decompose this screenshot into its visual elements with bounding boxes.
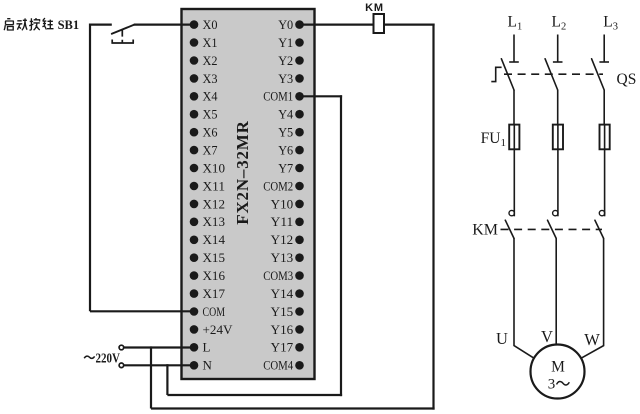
svg-text:Y0: Y0	[278, 17, 293, 32]
terminal Y13 (PLC right pin)	[271, 250, 304, 265]
svg-text:Y3: Y3	[278, 71, 293, 86]
wire: COM1 lead	[300, 95, 343, 97]
wire: KM contact to motor U	[514, 238, 534, 358]
svg-text:L: L	[203, 340, 211, 355]
terminal bar L1	[509, 61, 519, 63]
svg-text:X17: X17	[203, 286, 226, 301]
svg-text:X3: X3	[203, 71, 218, 86]
wire: Y0 to KM coil	[300, 24, 435, 26]
terminal Y17 (PLC right pin)	[271, 340, 304, 355]
svg-text:X15: X15	[203, 250, 226, 265]
svg-text:Y13: Y13	[271, 250, 294, 265]
disconnect switch QS blade pole 3	[592, 59, 605, 90]
wire: inner bottom return to COM1	[167, 394, 342, 396]
svg-text:3: 3	[548, 377, 556, 393]
terminal Y5 (PLC right pin)	[278, 125, 304, 140]
svg-text:X10: X10	[203, 160, 226, 175]
svg-text:M: M	[551, 358, 565, 375]
svg-text:X12: X12	[203, 196, 226, 211]
terminal +24V (PLC left pin)	[190, 322, 233, 337]
svg-text:X6: X6	[203, 125, 218, 140]
svg-text:U: U	[496, 329, 508, 348]
terminal Y6 (PLC right pin)	[278, 143, 304, 158]
wire: L3 supply stub	[603, 35, 605, 63]
QS linkage (dashed)	[504, 73, 603, 75]
supply terminal (circle) to L	[119, 345, 124, 350]
terminal X11 (PLC left pin)	[190, 178, 225, 193]
contactor coil KM	[365, 2, 384, 33]
terminal X17 (PLC left pin)	[190, 286, 226, 301]
svg-text:Y1: Y1	[278, 35, 293, 50]
svg-text:Y7: Y7	[278, 160, 293, 175]
svg-text:COM4: COM4	[263, 358, 293, 373]
svg-text:Y4: Y4	[278, 107, 293, 122]
contactor KM main contact blade pole 1	[505, 220, 514, 238]
terminal X3 (PLC left pin)	[190, 71, 218, 86]
terminal Y7 (PLC right pin)	[278, 160, 304, 175]
terminal X4 (PLC left pin)	[190, 89, 218, 104]
svg-text:Y16: Y16	[271, 322, 294, 337]
wire: KM contact to motor V	[555, 238, 557, 345]
terminal Y11 (PLC right pin)	[271, 214, 304, 229]
svg-text:Y2: Y2	[278, 53, 293, 68]
terminal X16 (PLC left pin)	[190, 268, 226, 283]
terminal COM (PLC left pin)	[190, 304, 226, 319]
terminal X5 (PLC left pin)	[190, 107, 218, 122]
svg-text:X11: X11	[203, 178, 226, 193]
disconnect switch QS blade pole 1	[501, 59, 514, 90]
svg-text:L2: L2	[552, 13, 567, 32]
terminal X10 (PLC left pin)	[190, 160, 225, 175]
fuse FU1 pole 1	[509, 125, 519, 150]
wire: fuse element pole 2	[557, 125, 559, 150]
svg-text:COM1: COM1	[263, 89, 293, 104]
svg-text:COM3: COM3	[263, 268, 293, 283]
label: ~220V supply	[84, 356, 94, 358]
wire: fuse to KM contact pole 1	[513, 149, 515, 216]
svg-text:KM: KM	[365, 2, 384, 14]
svg-text:220V: 220V	[96, 350, 121, 365]
svg-text:QS: QS	[617, 71, 637, 88]
terminal Y3 (PLC right pin)	[278, 71, 304, 86]
terminal Y16 (PLC right pin)	[271, 322, 304, 337]
svg-text:FX2N–32MR: FX2N–32MR	[233, 120, 252, 224]
svg-text:+24V: +24V	[203, 322, 234, 337]
svg-text:Y5: Y5	[278, 125, 293, 140]
terminal X6 (PLC left pin)	[190, 125, 218, 140]
wire: fuse element pole 3	[604, 125, 606, 150]
svg-text:X7: X7	[203, 143, 218, 158]
svg-text:L3: L3	[603, 13, 618, 32]
wire: L1 supply stub	[513, 35, 515, 63]
terminal X0 (PLC left pin)	[190, 17, 218, 32]
wire: QS to fuse pole 3	[603, 90, 605, 125]
wire: X0 lead, left segment	[89, 24, 112, 26]
terminal X12 (PLC left pin)	[190, 196, 225, 211]
push button SB1 actuator	[111, 30, 134, 43]
supply terminal (circle) to N	[119, 363, 124, 368]
terminal bar L3	[599, 61, 609, 63]
svg-text:L1: L1	[508, 13, 523, 32]
svg-text:Y17: Y17	[271, 340, 294, 355]
wire: supply to L terminal	[124, 346, 196, 348]
svg-text:COM2: COM2	[263, 178, 293, 193]
svg-text:N: N	[203, 358, 213, 373]
KM linkage (dashed)	[501, 228, 603, 230]
wire: COM1 return vertical	[340, 95, 342, 396]
wire: SB1 down to COM (left vertical)	[89, 24, 91, 312]
svg-text:X16: X16	[203, 268, 226, 283]
svg-text:X14: X14	[203, 232, 226, 247]
wire: fuse to KM contact pole 2	[557, 149, 559, 216]
terminal X15 (PLC left pin)	[190, 250, 225, 265]
terminal Y4 (PLC right pin)	[278, 107, 304, 122]
wire: into COM terminal	[90, 310, 196, 312]
terminal Y1 (PLC right pin)	[278, 35, 304, 50]
contactor KM main contact blade pole 3	[595, 220, 604, 238]
terminal X14 (PLC left pin)	[190, 232, 226, 247]
wire: fuse to KM contact pole 3	[604, 149, 606, 216]
terminal COM2 (PLC right pin)	[263, 178, 304, 193]
svg-text:Y6: Y6	[278, 143, 293, 158]
terminal Y0 (PLC right pin)	[278, 17, 304, 32]
contactor KM main contact hook pole 1	[509, 210, 514, 215]
wire: KM contact to motor W	[582, 238, 604, 358]
disconnect switch QS blade pole 2	[545, 59, 558, 90]
motor M 3~	[531, 345, 585, 399]
svg-text:W: W	[584, 330, 600, 349]
terminal Y10 (PLC right pin)	[271, 196, 304, 211]
terminal X13 (PLC left pin)	[190, 214, 225, 229]
svg-text:X0: X0	[203, 17, 218, 32]
svg-text:Y11: Y11	[271, 214, 294, 229]
svg-text:X5: X5	[203, 107, 218, 122]
svg-text:X4: X4	[203, 89, 218, 104]
terminal Y12 (PLC right pin)	[271, 232, 304, 247]
svg-text:SB1: SB1	[58, 18, 80, 32]
svg-text:X2: X2	[203, 53, 218, 68]
svg-text:X1: X1	[203, 35, 218, 50]
wire: KM coil return vertical	[432, 24, 434, 410]
svg-text:X13: X13	[203, 214, 226, 229]
svg-text:V: V	[541, 327, 553, 346]
push button SB1 contact blade	[112, 25, 135, 34]
label: start button SB1 (Chinese text)	[4, 18, 53, 30]
wire: branch from N wire down	[166, 364, 168, 395]
svg-text:Y12: Y12	[271, 232, 294, 247]
svg-text:Y15: Y15	[271, 304, 294, 319]
fuse FU1 pole 3	[600, 125, 610, 150]
terminal L (PLC left pin)	[190, 340, 211, 355]
terminal COM1 (PLC right pin)	[263, 89, 304, 104]
wire: X0 lead, right segment into X0	[134, 24, 196, 26]
wire: QS to fuse pole 1	[513, 90, 515, 125]
svg-text:FU1: FU1	[481, 130, 506, 149]
contactor KM main contact blade pole 2	[548, 220, 557, 238]
terminal COM4 (PLC right pin)	[263, 358, 304, 373]
svg-text:Y10: Y10	[271, 196, 294, 211]
terminal Y2 (PLC right pin)	[278, 53, 304, 68]
svg-text:COM: COM	[203, 304, 226, 319]
terminal X7 (PLC left pin)	[190, 143, 218, 158]
contactor KM main contact hook pole 3	[599, 210, 604, 215]
QS operating handle	[491, 67, 501, 81]
contactor KM main contact hook pole 2	[553, 210, 558, 215]
terminal Y15 (PLC right pin)	[271, 304, 304, 319]
terminal bar L2	[553, 61, 563, 63]
wire: bottom return to KM coil	[151, 407, 435, 409]
PLC U1 FX2N-32MR body	[182, 9, 315, 379]
wire: QS to fuse pole 2	[557, 90, 559, 125]
wire: L2 supply stub	[557, 35, 559, 63]
svg-text:KM: KM	[472, 222, 498, 239]
wire: fuse element pole 1	[513, 125, 515, 150]
terminal COM3 (PLC right pin)	[263, 268, 304, 283]
wire: supply to N terminal	[124, 364, 196, 366]
fuse FU1 pole 2	[553, 125, 563, 150]
terminal X1 (PLC left pin)	[190, 35, 218, 50]
wire: branch from L wire down	[150, 346, 152, 408]
terminal Y14 (PLC right pin)	[271, 286, 304, 301]
terminal N (PLC left pin)	[190, 358, 213, 373]
terminal X2 (PLC left pin)	[190, 53, 218, 68]
svg-text:Y14: Y14	[271, 286, 294, 301]
